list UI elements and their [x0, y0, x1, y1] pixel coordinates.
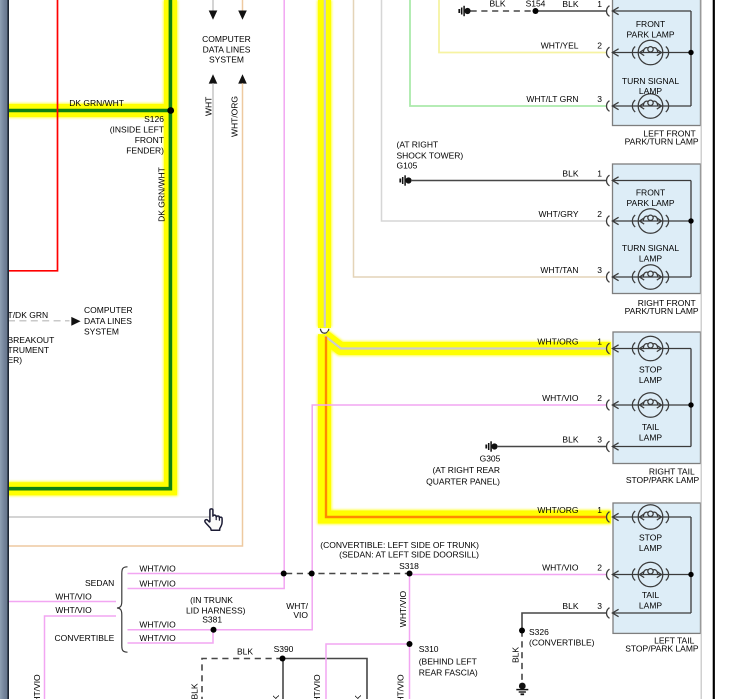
svg-text:1: 1: [597, 0, 602, 9]
svg-text:TAIL: TAIL: [642, 422, 660, 432]
left panel splitter bar fill: [0, 0, 9, 699]
inline connector symbol on highlighted wire: [320, 329, 328, 333]
svg-text:LAMP: LAMP: [639, 433, 662, 443]
window frame vertical black line: [713, 0, 715, 699]
wire: WHT/LT GRN from top to left front pin 3: [410, 0, 607, 106]
svg-text:QUARTER PANEL): QUARTER PANEL): [426, 476, 500, 486]
lamp assembly box: right tail stop/park lamp: [613, 332, 701, 464]
internal bus junction dot left tail stop/park lamp: [688, 572, 693, 577]
svg-text:COMPUTER: COMPUTER: [84, 305, 133, 315]
svg-text:PARK LAMP: PARK LAMP: [626, 198, 674, 208]
svg-text:WHT/TAN: WHT/TAN: [540, 265, 578, 275]
arrow up WHT: [209, 74, 218, 83]
wire: DK GRN/WHT green core: [8, 0, 170, 489]
bulb symbol (right tail stop/park lamp lamp A): [632, 336, 668, 361]
svg-text:BLK: BLK: [562, 601, 578, 611]
wire: WHT/ORG tan to computer data lines, upper segment: [242, 0, 244, 11]
pin 2 of right tail stop/park lamp: [607, 400, 610, 411]
pin 1 of right front park/turn lamp: [607, 175, 610, 186]
pin 3 of right tail stop/park lamp: [607, 441, 610, 452]
pin 3 of left front park/turn lamp: [607, 101, 610, 112]
wire: WHT/VIO main vertical from top: [283, 0, 285, 574]
svg-text:(AT RIGHT REAR: (AT RIGHT REAR: [432, 465, 500, 475]
svg-text:WHT/VIO: WHT/VIO: [396, 674, 406, 699]
svg-text:WHT/VIO: WHT/VIO: [398, 590, 408, 627]
wire: highlighted yellow band lower vertical + run to left tail lamp: [325, 334, 612, 517]
svg-text:3: 3: [597, 434, 602, 444]
lamp assembly box: right front park/turn lamp: [613, 164, 701, 294]
svg-text:T/DK GRN: T/DK GRN: [8, 310, 49, 320]
svg-text:STOP: STOP: [639, 365, 662, 375]
internal bus junction dot right front park/turn lamp: [688, 218, 693, 223]
svg-text:(BEHIND LEFT: (BEHIND LEFT: [419, 657, 477, 667]
svg-text:FRONT: FRONT: [636, 188, 665, 198]
wire: WHT/VIO left lead 1: [8, 601, 116, 603]
svg-text:FRONT: FRONT: [636, 19, 665, 29]
svg-text:WHT/VIO: WHT/VIO: [312, 674, 322, 699]
svg-text:(CONVERTIBLE: LEFT SIDE OF TRU: (CONVERTIBLE: LEFT SIDE OF TRUNK): [320, 540, 479, 550]
wire: red vertical/horizontal (upper left): [8, 0, 58, 271]
svg-text:1: 1: [597, 505, 602, 515]
svg-text:CONVERTIBLE: CONVERTIBLE: [54, 633, 114, 643]
svg-text:BLK: BLK: [190, 683, 200, 699]
svg-text:WHT/ORG: WHT/ORG: [537, 505, 578, 515]
svg-text:TAIL: TAIL: [642, 590, 660, 600]
wire: BLK G305 to right tail pin 3: [497, 446, 607, 448]
svg-text:(INSIDE LEFT: (INSIDE LEFT: [110, 125, 164, 135]
ground at splice S154 (chassis): [459, 6, 470, 16]
internal bus wire left front park/turn lamp: [613, 11, 691, 106]
wire: WHT/VIO S310 branch left and down off bottom: [326, 644, 410, 699]
svg-text:3: 3: [597, 265, 602, 275]
svg-text:LAMP: LAMP: [639, 254, 662, 264]
wire: WHT/GRY from top to right front pin 2: [382, 0, 607, 221]
wire: BLK solid S154 to left front pin 1: [536, 10, 607, 12]
left panel splitter dark edge: [7, 0, 9, 699]
svg-text:G105: G105: [397, 160, 418, 170]
svg-text:BLK: BLK: [237, 647, 253, 657]
svg-text:S154: S154: [526, 0, 546, 8]
svg-text:FRONT: FRONT: [135, 135, 164, 145]
bulb symbol (right front park/turn lamp lamp A): [632, 209, 668, 234]
variant brace (sedan/convertible): [117, 567, 128, 652]
lamp assembly box: left tail stop/park lamp: [613, 503, 701, 633]
svg-text:WHT/ORG: WHT/ORG: [229, 96, 239, 137]
svg-text:REAR FASCIA): REAR FASCIA): [419, 668, 478, 678]
arrow up WHT/ORG: [238, 74, 247, 83]
bulb symbol (right tail stop/park lamp lamp B): [632, 393, 668, 418]
wire: gray core diagonal to right tail pin 1: [325, 336, 607, 349]
svg-text:WHT/VIO: WHT/VIO: [139, 578, 176, 588]
pin 1 of right tail stop/park lamp: [607, 343, 610, 354]
pin 1 of left front park/turn lamp: [607, 6, 610, 17]
wire: dashed gray to computer data lines (left): [8, 320, 70, 322]
wire: BLK dashed S326 down to ground: [521, 631, 523, 681]
svg-text:BREAKOUT: BREAKOUT: [8, 335, 55, 345]
wire: WHT (gray) lower run to left edge: [8, 83, 213, 517]
svg-text:2: 2: [597, 393, 602, 403]
svg-text:PARK/TURN LAMP: PARK/TURN LAMP: [625, 137, 699, 147]
svg-text:TURN SIGNAL: TURN SIGNAL: [622, 243, 679, 253]
svg-text:LAMP: LAMP: [639, 375, 662, 385]
svg-text:(SEDAN: AT LEFT SIDE DOORSILL): (SEDAN: AT LEFT SIDE DOORSILL): [339, 550, 479, 560]
svg-text:BLK: BLK: [271, 695, 281, 699]
svg-text:WHT/VIO: WHT/VIO: [32, 674, 42, 699]
junction dots layer: [167, 107, 174, 114]
svg-text:COMPUTER: COMPUTER: [202, 34, 251, 44]
internal bus junction dot right tail stop/park lamp: [688, 402, 693, 407]
svg-text:DATA LINES: DATA LINES: [84, 316, 132, 326]
svg-text:(IN TRUNK: (IN TRUNK: [190, 595, 233, 605]
svg-text:WHT: WHT: [203, 97, 213, 116]
internal bus wire right tail stop/park lamp: [613, 349, 691, 447]
svg-text:PARK/TURN LAMP: PARK/TURN LAMP: [625, 306, 699, 316]
pin 2 of left front park/turn lamp: [607, 47, 610, 58]
svg-text:S326: S326: [529, 627, 549, 637]
svg-text:2: 2: [597, 209, 602, 219]
svg-text:WHT/VIO: WHT/VIO: [139, 620, 176, 630]
svg-text:S381: S381: [202, 615, 222, 625]
lamp assembly box: left front park/turn lamp: [613, 0, 701, 126]
wire: BLK solid S390 right then down: [283, 659, 368, 699]
ground below S326 (convertible): [516, 683, 528, 695]
svg-text:BLK: BLK: [511, 647, 521, 663]
wire: WHT/VIO S318 down to S310 and off bottom: [409, 574, 411, 699]
svg-text:SYSTEM: SYSTEM: [209, 54, 244, 64]
arrow right to computer data lines system: [71, 317, 80, 326]
pin 2 of right front park/turn lamp: [607, 216, 610, 227]
svg-text:BLK: BLK: [562, 0, 578, 9]
svg-text:WHT/LT GRN: WHT/LT GRN: [526, 94, 578, 104]
svg-text:G305: G305: [480, 454, 501, 464]
svg-text:BLK: BLK: [353, 695, 363, 699]
svg-text:S318: S318: [399, 561, 419, 571]
svg-text:SHOCK TOWER): SHOCK TOWER): [397, 150, 464, 160]
wire: DK GRN/WHT highlighted yellow band: [8, 0, 171, 489]
pin 3 of right front park/turn lamp: [607, 272, 610, 283]
wire: highlighted yellow band diagonal+branch to right tail lamp: [325, 334, 612, 348]
svg-text:2: 2: [597, 40, 602, 50]
svg-text:WHT/VIO: WHT/VIO: [55, 592, 92, 602]
svg-text:1: 1: [597, 168, 602, 178]
svg-text:SEDAN: SEDAN: [85, 578, 114, 588]
pin 3 of left tail stop/park lamp: [607, 608, 610, 619]
svg-text:BLK: BLK: [489, 0, 505, 8]
svg-text:SYSTEM: SYSTEM: [84, 327, 119, 337]
diagram page right border (light gray): [700, 0, 702, 699]
svg-text:PARK LAMP: PARK LAMP: [626, 30, 674, 40]
svg-text:(AT RIGHT: (AT RIGHT: [397, 140, 439, 150]
wire: WHT/VIO brace row 3 (convertible) to S381: [128, 629, 214, 631]
wire: WHT (gray) to computer data lines, upper segment: [212, 0, 214, 11]
wire: BLK dashed to splice S154: [471, 10, 536, 12]
svg-text:3: 3: [597, 94, 602, 104]
svg-text:BLK: BLK: [562, 168, 578, 178]
svg-text:LAMP: LAMP: [639, 86, 662, 96]
wire: BLK solid down from S390: [282, 659, 284, 699]
wire: WHT/VIO brace row 4 (convertible) up to S381: [128, 630, 214, 643]
arrow down WHT: [209, 11, 218, 20]
svg-text:ER): ER): [8, 355, 23, 365]
svg-text:1: 1: [597, 336, 602, 346]
svg-text:DK GRN/WHT: DK GRN/WHT: [69, 98, 124, 108]
svg-text:WHT/VIO: WHT/VIO: [139, 563, 176, 573]
svg-text:STOP/PARK LAMP: STOP/PARK LAMP: [625, 643, 699, 653]
wire: WHT/VIO S318 to left tail pin 2: [410, 574, 607, 576]
bulb symbol (right front park/turn lamp lamp B): [632, 265, 668, 290]
wire: WHT gray core upper vertical: [324, 0, 326, 327]
svg-text:VIO: VIO: [293, 610, 308, 620]
bulb symbol (left tail stop/park lamp lamp B): [632, 562, 668, 587]
svg-text:TRUMENT: TRUMENT: [8, 345, 50, 355]
cursor knuckle separations: [216, 517, 219, 520]
svg-text:WHT/ORG: WHT/ORG: [537, 336, 578, 346]
internal bus wire right front park/turn lamp: [613, 181, 691, 278]
svg-text:STOP: STOP: [639, 533, 662, 543]
wire: highlighted WHT/ORG yellow band upper vertical: [318, 0, 331, 328]
svg-text:BLK: BLK: [562, 434, 578, 444]
wire: WHT/TAN from top to right front pin 3: [354, 0, 607, 277]
bulb symbol (left front park/turn lamp lamp A): [632, 40, 668, 65]
pin 2 of left tail stop/park lamp: [607, 569, 610, 580]
pin 1 of left tail stop/park lamp: [607, 512, 610, 523]
bulb symbol (left front park/turn lamp lamp B): [632, 94, 668, 119]
arrow down WHT/ORG: [238, 11, 247, 20]
bulb symbol (left tail stop/park lamp lamp A): [632, 505, 668, 530]
internal bus junction dot left front park/turn lamp: [688, 50, 693, 55]
svg-text:LAMP: LAMP: [639, 543, 662, 553]
svg-text:FENDER): FENDER): [126, 146, 164, 156]
svg-text:WHT/VIO: WHT/VIO: [55, 605, 92, 615]
wire: WHT/VIO brace row 1 (sedan): [128, 573, 284, 575]
svg-text:2: 2: [597, 562, 602, 572]
wire: WHT/ORG tan lower run to left edge: [8, 83, 243, 546]
svg-text:S126: S126: [144, 114, 164, 124]
svg-text:WHT/VIO: WHT/VIO: [542, 393, 579, 403]
svg-text:(CONVERTIBLE): (CONVERTIBLE): [529, 638, 595, 648]
wire: WHT/YEL from top to left front pin 2: [439, 0, 607, 53]
svg-text:S390: S390: [274, 644, 294, 654]
wire: BLK left tail pin 3 down to S326: [522, 613, 607, 631]
svg-text:WHT/YEL: WHT/YEL: [541, 40, 579, 50]
ground G105 (at right shock tower): [400, 175, 411, 185]
wire: BLK G105 to right front pin 1: [411, 180, 607, 182]
svg-text:WHT/GRY: WHT/GRY: [539, 209, 579, 219]
wire: ORG core lower vertical and run to left tail pin 1: [326, 337, 607, 518]
wire: BLK dashed from S390 to lower left: [202, 659, 283, 699]
wire: WHT/VIO from splice down to S381 run: [214, 574, 313, 630]
svg-text:3: 3: [597, 601, 602, 611]
svg-text:WHT/VIO: WHT/VIO: [139, 633, 176, 643]
mouse hand cursor: [205, 509, 222, 530]
svg-text:LAMP: LAMP: [639, 601, 662, 611]
wire: WHT/VIO brace row 2 (sedan) up to splice: [128, 574, 285, 589]
svg-text:STOP/PARK LAMP: STOP/PARK LAMP: [626, 475, 700, 485]
svg-text:DK GRN/WHT: DK GRN/WHT: [156, 167, 166, 222]
wire: WHT/VIO right tail pin 2 feed: [312, 405, 606, 574]
svg-text:DATA LINES: DATA LINES: [203, 45, 251, 55]
wire: WHT/VIO left lead 2 with drop off bottom: [45, 616, 117, 699]
svg-text:TURN SIGNAL: TURN SIGNAL: [622, 76, 679, 86]
wire: dashed splice run to S318: [286, 573, 410, 575]
internal bus wire left tail stop/park lamp: [613, 517, 691, 613]
svg-text:WHT/VIO: WHT/VIO: [542, 562, 579, 572]
svg-text:S310: S310: [419, 644, 439, 654]
ground G305 (at right rear quarter panel): [486, 441, 497, 451]
